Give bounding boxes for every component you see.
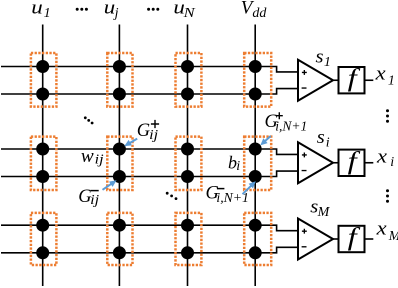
memristor dot G- (column Vdd, row M) (249, 246, 262, 259)
synapse cell box (column Vdd, row 1) (244, 53, 271, 107)
wire: vertical input line Vdd (column 4) (254, 25, 256, 287)
wire: vertical input line uj (column 2) (118, 25, 120, 287)
op-amp s1 minus input marker (302, 87, 307, 89)
wire: row M+ (to sM + input) (1, 225, 299, 231)
memristor dot G- (column uN, row 1) (181, 88, 194, 101)
memristor dot G- (column uj, row 1) (113, 88, 126, 101)
svg-text:w: w (81, 147, 94, 167)
memristor dot G- (column uN, row M) (181, 246, 194, 259)
svg-text:ij: ij (149, 128, 158, 143)
svg-text:i: i (236, 159, 240, 174)
activation function block f (row i) (339, 150, 365, 176)
synapse cell box (column u1, row i) (31, 137, 57, 190)
op-amp sM (comparator triangle) (298, 219, 333, 260)
memristor dot G+ (column uN, row 1) (181, 60, 194, 73)
synapse cell box (column uj, row 1) (107, 53, 132, 107)
svg-text:s: s (317, 127, 325, 148)
memristor dot G- (column u1, row M) (36, 246, 49, 259)
op-amp sM minus input marker (302, 246, 307, 248)
svg-text:G: G (137, 121, 150, 141)
memristor dot G- (column uj, row M) (113, 246, 126, 259)
svg-text:1: 1 (388, 73, 395, 88)
wire: row i+ (to si + input) (1, 149, 299, 154)
synapse cell box (column uN, row i) (176, 137, 202, 190)
svg-text:1: 1 (44, 6, 51, 21)
op-amp si minus input marker (302, 170, 307, 172)
wire: row 1+ (to s1 + input) (1, 67, 299, 72)
wire: vertical input line u1 (column 1) (42, 25, 44, 287)
svg-text:i,N+1: i,N+1 (275, 120, 307, 135)
blue arrow from Gi,N+1- label to G- dot (243, 185, 253, 195)
memristor dot G- (column Vdd, row i) (249, 170, 262, 183)
wire: vertical input line uN (column 3) (187, 25, 189, 287)
memristor dot G+ (column uN, row M) (181, 219, 194, 232)
memristor dot G+ (column Vdd, row M) (249, 219, 262, 232)
op-amp si plus input marker (302, 153, 307, 158)
memristor dot G+ (column uj, row M) (113, 219, 126, 232)
memristor dot G- (column uN, row i) (181, 170, 194, 183)
blue arrow from Gij- label to G- dot (103, 183, 113, 190)
svg-text:u: u (104, 0, 116, 19)
synapse cell box (column uN, row M) (176, 213, 202, 265)
memristor dot G- (column uj, row i) (113, 170, 126, 183)
ellipsis between uj and uN (147, 8, 150, 11)
svg-text:x: x (376, 147, 388, 168)
synapse cell box (column uj, row i) (107, 137, 132, 190)
wire: row 1- (to s1 - input) (1, 89, 299, 94)
memristor dot G+ (column u1, row 1) (36, 60, 49, 73)
svg-text:dd: dd (252, 6, 267, 21)
op-amp sM plus input marker (302, 229, 307, 234)
svg-text:1: 1 (324, 55, 331, 70)
synapse cell box (column u1, row 1) (31, 53, 57, 107)
wire: row i- (to si - input) (1, 171, 299, 176)
svg-text:i: i (390, 155, 394, 170)
synapse cell box (column Vdd, row M) (244, 213, 271, 265)
svg-text:M: M (388, 229, 398, 244)
op-amp si (comparator triangle) (298, 142, 333, 183)
svg-text:i: i (326, 136, 330, 151)
svg-text:s: s (316, 46, 324, 67)
memristor dot G- (column u1, row i) (36, 170, 49, 183)
synapse cell box (column uj, row M) (107, 213, 132, 265)
wire: op-amp sM output to f box (333, 238, 339, 240)
memristor dot G+ (column uN, row i) (181, 143, 194, 156)
ellipsis between u1 and uj (76, 8, 79, 11)
wire: row M- (to sM - input) (1, 247, 299, 253)
memristor dot G+ (column Vdd, row i) (249, 143, 262, 156)
wire: f box output xi (365, 162, 374, 164)
blue arrow from Gij+ label to G+ dot (129, 139, 138, 144)
svg-text:x: x (374, 64, 386, 85)
blue arrow from Gi,N+1+ label to G+ dot (264, 136, 271, 142)
memristor dot G+ (column u1, row M) (36, 219, 49, 232)
synapse cell box (column Vdd, row i) (244, 137, 271, 190)
svg-text:x: x (375, 218, 387, 239)
svg-text:ij: ij (95, 153, 104, 168)
memristor dot G+ (column Vdd, row 1) (249, 60, 262, 73)
memristor dot G- (column Vdd, row 1) (249, 88, 262, 101)
synapse cell box (column u1, row M) (31, 213, 57, 265)
svg-text:u: u (31, 0, 43, 19)
svg-text:ij: ij (90, 193, 99, 208)
memristor dot G+ (column u1, row i) (36, 143, 49, 156)
wire: f box output xM (365, 238, 374, 240)
diagonal ellipsis (rows between group i and M, cols 2-3) (166, 192, 169, 195)
op-amp s1 plus input marker (302, 70, 307, 75)
vertical ellipsis between xi and xM (386, 189, 389, 192)
wire: op-amp s1 output to f box (333, 79, 339, 81)
wire: op-amp si output to f box (333, 162, 339, 164)
memristor dot G+ (column uj, row i) (113, 143, 126, 156)
memristor dot G- (column u1, row 1) (36, 88, 49, 101)
diagonal ellipsis (rows between group 1 and i, cols 1-2) (84, 116, 87, 119)
vertical ellipsis between x1 and xi (386, 109, 389, 112)
activation function block f (row 1) (339, 67, 365, 93)
op-amp s1 (comparator triangle) (298, 60, 333, 101)
svg-text:N: N (182, 6, 195, 21)
synapse cell box (column uN, row 1) (176, 53, 202, 107)
wire: f box output x1 (365, 79, 374, 81)
svg-text:M: M (317, 205, 331, 220)
activation function block f (row M) (339, 226, 365, 252)
memristor dot G+ (column uj, row 1) (113, 60, 126, 73)
